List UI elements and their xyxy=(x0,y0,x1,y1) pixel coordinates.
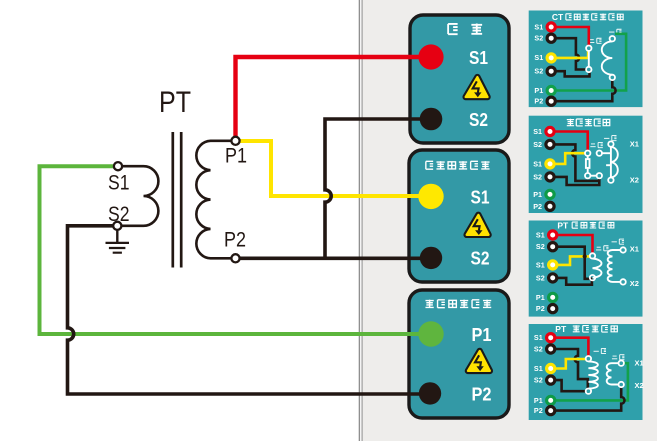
svg-text:X1: X1 xyxy=(630,140,639,149)
svg-text:S2: S2 xyxy=(469,109,488,130)
svg-text:P2: P2 xyxy=(534,406,543,415)
svg-text:P2: P2 xyxy=(224,229,246,252)
svg-text:P1: P1 xyxy=(533,190,542,199)
svg-text:P2: P2 xyxy=(534,97,543,106)
svg-text:P1: P1 xyxy=(534,396,543,405)
svg-text:P1: P1 xyxy=(536,293,545,302)
svg-text:X2: X2 xyxy=(635,381,644,390)
svg-text:S2: S2 xyxy=(536,242,545,251)
svg-text:S2: S2 xyxy=(534,34,543,43)
svg-text:S1: S1 xyxy=(471,186,490,207)
svg-text:S2: S2 xyxy=(533,140,542,149)
svg-text:PT: PT xyxy=(555,324,567,334)
svg-text:S1: S1 xyxy=(469,47,488,68)
svg-text:S2: S2 xyxy=(534,67,543,76)
svg-text:P2: P2 xyxy=(472,383,492,404)
svg-text:S1: S1 xyxy=(534,23,543,32)
svg-text:S1: S1 xyxy=(534,364,543,373)
svg-text:S1: S1 xyxy=(108,172,130,195)
svg-text:S2: S2 xyxy=(108,203,130,226)
svg-text:S1: S1 xyxy=(536,231,545,240)
svg-text:S2: S2 xyxy=(471,248,490,269)
svg-text:P1: P1 xyxy=(225,145,247,168)
svg-text:CT: CT xyxy=(552,12,564,22)
svg-text:S1: S1 xyxy=(534,333,543,342)
svg-text:P1: P1 xyxy=(534,86,543,95)
svg-text:S2: S2 xyxy=(534,376,543,385)
svg-text:S1: S1 xyxy=(533,127,542,136)
svg-text:X2: X2 xyxy=(630,176,639,185)
svg-text:S2: S2 xyxy=(533,172,542,181)
svg-text:S1: S1 xyxy=(534,53,543,62)
svg-text:P2: P2 xyxy=(536,304,545,313)
svg-text:S1: S1 xyxy=(533,159,542,168)
svg-text:P2: P2 xyxy=(533,202,542,211)
svg-text:X2: X2 xyxy=(630,279,639,288)
svg-text:PT: PT xyxy=(557,221,569,231)
svg-text:PT: PT xyxy=(159,86,191,119)
svg-text:P1: P1 xyxy=(472,324,492,345)
svg-text:S2: S2 xyxy=(536,273,545,282)
svg-text:S1: S1 xyxy=(536,260,545,269)
svg-text:X1: X1 xyxy=(630,245,639,254)
svg-text:S2: S2 xyxy=(534,345,543,354)
svg-text:X1: X1 xyxy=(635,359,644,368)
